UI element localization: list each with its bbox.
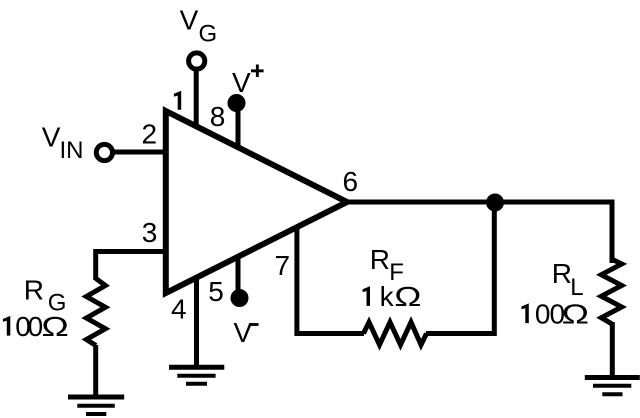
svg-text:V: V	[232, 67, 251, 98]
svg-text:k: k	[380, 281, 395, 312]
svg-text:2: 2	[142, 119, 158, 150]
svg-text:5: 5	[208, 276, 224, 307]
svg-text:8: 8	[210, 101, 226, 132]
svg-text:0: 0	[535, 299, 551, 330]
svg-text:Ω: Ω	[41, 310, 68, 342]
svg-text:V: V	[180, 5, 199, 36]
svg-text:Ω: Ω	[394, 281, 421, 312]
svg-text:R: R	[370, 244, 390, 275]
svg-text:R: R	[24, 275, 44, 306]
svg-text:IN: IN	[60, 137, 84, 164]
svg-text:6: 6	[343, 166, 359, 197]
svg-text:G: G	[199, 21, 218, 48]
svg-text:R: R	[552, 258, 572, 289]
svg-text:4: 4	[171, 294, 187, 325]
svg-text:Ω: Ω	[562, 298, 589, 330]
svg-text:7: 7	[275, 250, 291, 281]
svg-text:V: V	[234, 317, 253, 348]
svg-text:V: V	[42, 122, 61, 153]
svg-text:3: 3	[142, 217, 158, 248]
